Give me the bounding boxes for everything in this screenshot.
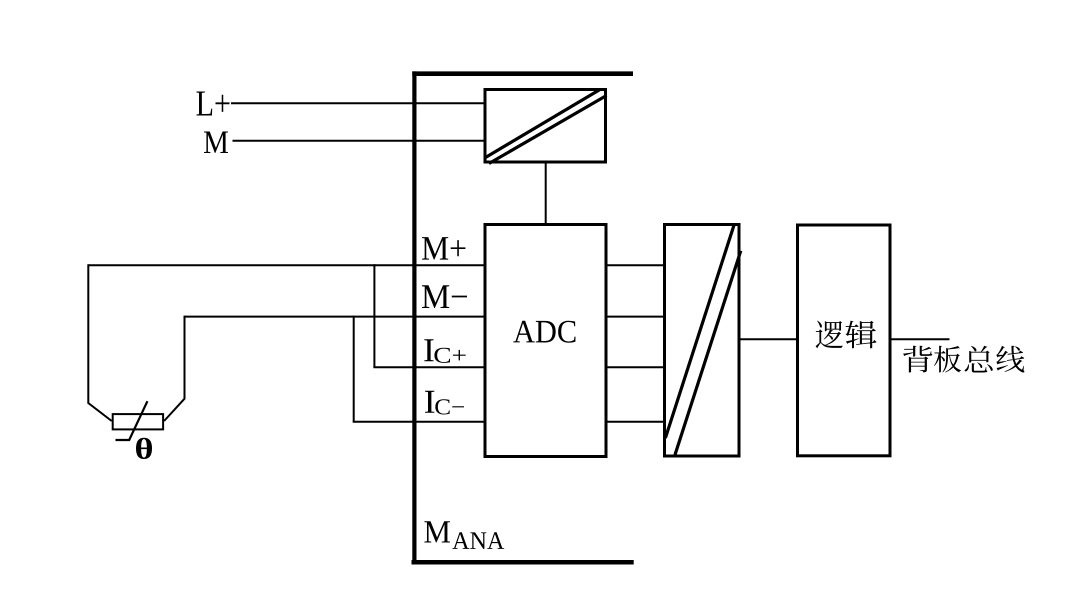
thermistor RT1 left lead bbox=[88, 264, 111, 421]
ADC converter U2 bbox=[485, 225, 606, 457]
module boundary bracket (analog input module frame) bbox=[412, 71, 634, 564]
wire M supply bbox=[233, 140, 486, 142]
label theta thermistor symbol bbox=[136, 438, 152, 459]
label ADC bbox=[513, 321, 575, 343]
wire M- input bbox=[185, 316, 486, 318]
label backplane bus text 总 bbox=[965, 346, 993, 373]
wire U1 to ADC bbox=[545, 164, 547, 224]
label logic text 逻 bbox=[816, 321, 843, 349]
label MANA subscript ANA bbox=[452, 532, 504, 549]
wire logic U4 to backplane bus bbox=[890, 338, 950, 340]
label MANA letter M (analog ground) bbox=[424, 521, 450, 542]
wire ADC to isolator ch1 bbox=[606, 264, 664, 266]
label IC- subscript C- bbox=[435, 399, 464, 414]
thermistor RT1 right lead bbox=[164, 316, 184, 421]
wire IC- input with branch junction from M- bbox=[353, 316, 485, 422]
wire ADC to isolator ch4 bbox=[606, 421, 664, 423]
galvanic isolation barrier U3 bbox=[665, 225, 741, 457]
power supply isolation converter U1 bbox=[485, 90, 607, 164]
label M bbox=[204, 132, 228, 153]
label backplane bus text 背 bbox=[903, 346, 932, 373]
wire IC+ input with branch junction from M+ bbox=[373, 264, 485, 367]
label IC+ subscript C+ bbox=[434, 348, 465, 363]
wire ADC to isolator ch2 bbox=[606, 316, 664, 318]
wire L+ supply bbox=[231, 102, 485, 104]
wire M+ input bbox=[88, 264, 485, 266]
wire ADC to isolator ch3 bbox=[606, 366, 664, 368]
label logic text 辑 bbox=[845, 321, 876, 349]
label IC+ letter I bbox=[424, 339, 433, 361]
logic block U4 bbox=[798, 225, 891, 456]
label backplane bus text 线 bbox=[996, 346, 1024, 373]
label M+ bbox=[422, 237, 465, 260]
label IC- letter I bbox=[425, 391, 434, 413]
thermistor RT1 body bbox=[113, 401, 163, 440]
label L+ bbox=[196, 91, 229, 115]
label M- bbox=[422, 285, 467, 308]
wire isolator U3 to logic U4 bbox=[739, 338, 798, 340]
label backplane bus text 板 bbox=[934, 346, 961, 373]
